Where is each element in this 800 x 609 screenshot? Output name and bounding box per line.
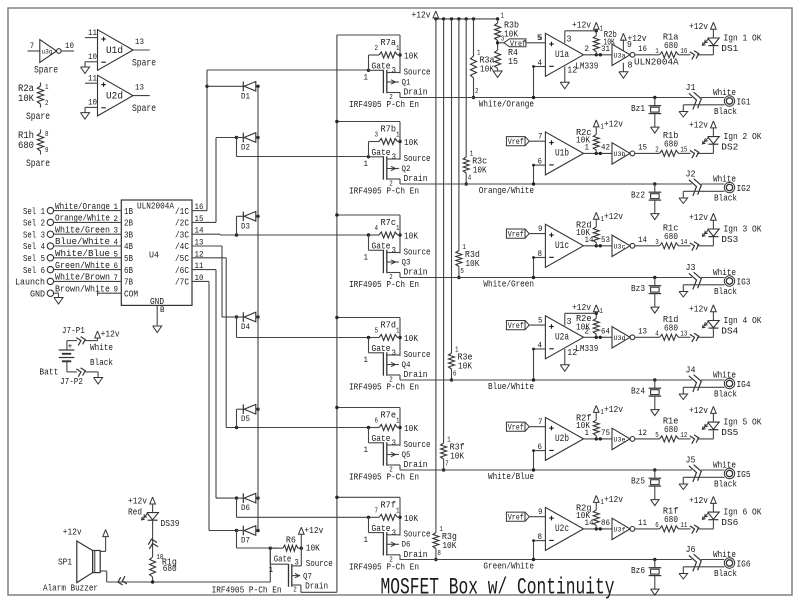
- svg-text:2B: 2B: [124, 219, 133, 229]
- svg-text:D2: D2: [241, 144, 250, 153]
- svg-text:+12v: +12v: [304, 525, 323, 536]
- svg-text:3: 3: [294, 559, 299, 568]
- svg-text:IRF4905 P-Ch En: IRF4905 P-Ch En: [349, 279, 419, 290]
- svg-text:Bz2: Bz2: [631, 190, 645, 201]
- svg-text:D5: D5: [241, 415, 250, 424]
- svg-text:8: 8: [538, 250, 543, 259]
- svg-text:680: 680: [664, 424, 678, 435]
- svg-text:Drain: Drain: [404, 369, 428, 380]
- svg-text:4B: 4B: [124, 242, 133, 252]
- svg-text:Black: Black: [90, 357, 113, 368]
- svg-text:+12v: +12v: [689, 119, 708, 130]
- svg-text:Alarm Buzzer: Alarm Buzzer: [43, 583, 98, 594]
- svg-text:10K: 10K: [576, 134, 590, 145]
- svg-text:1B: 1B: [124, 207, 133, 217]
- svg-text:5B: 5B: [124, 254, 133, 264]
- svg-text:Drain: Drain: [305, 581, 328, 592]
- svg-text:2: 2: [585, 45, 590, 54]
- svg-text:IG3: IG3: [737, 277, 751, 288]
- svg-text:2: 2: [475, 88, 479, 96]
- svg-text:LM339: LM339: [575, 343, 598, 354]
- svg-text:u3g: u3g: [42, 49, 53, 56]
- svg-text:Bz4: Bz4: [631, 386, 645, 397]
- svg-text:Source: Source: [404, 529, 431, 540]
- svg-text:1: 1: [601, 123, 605, 131]
- svg-text:COM: COM: [124, 289, 138, 299]
- svg-text:8: 8: [45, 131, 49, 139]
- svg-text:Black: Black: [714, 389, 737, 400]
- svg-text:/1C: /1C: [175, 207, 190, 217]
- svg-text:4: 4: [375, 225, 379, 233]
- svg-text:Vref: Vref: [508, 138, 524, 147]
- svg-text:5: 5: [375, 328, 379, 336]
- svg-text:7: 7: [538, 133, 543, 142]
- svg-text:DS4: DS4: [721, 325, 738, 336]
- svg-text:15: 15: [508, 56, 518, 67]
- svg-text:Drain: Drain: [404, 459, 428, 470]
- svg-text:Drain: Drain: [404, 267, 428, 278]
- svg-text:4: 4: [538, 341, 543, 350]
- svg-text:DS2: DS2: [721, 141, 738, 152]
- svg-text:IG1: IG1: [737, 97, 751, 108]
- svg-text:IG4: IG4: [737, 379, 751, 390]
- svg-text:10K: 10K: [576, 227, 590, 238]
- svg-text:1: 1: [601, 409, 605, 417]
- svg-text:2: 2: [45, 100, 49, 108]
- svg-text:10K: 10K: [473, 165, 487, 176]
- svg-text:1: 1: [45, 84, 49, 92]
- svg-text:2: 2: [293, 587, 297, 595]
- svg-text:J2: J2: [686, 169, 696, 180]
- svg-text:10K: 10K: [576, 322, 590, 333]
- svg-text:3: 3: [567, 34, 572, 44]
- svg-text:U3d: U3d: [614, 335, 626, 342]
- svg-text:U2a: U2a: [555, 332, 569, 343]
- svg-text:Bz5: Bz5: [631, 476, 645, 487]
- svg-text:1: 1: [364, 254, 369, 263]
- svg-text:1: 1: [600, 25, 604, 33]
- svg-text:1: 1: [364, 536, 369, 545]
- svg-text:1: 1: [396, 225, 400, 233]
- svg-text:R7d: R7d: [381, 320, 397, 331]
- svg-text:2: 2: [655, 146, 659, 154]
- svg-text:Source: Source: [404, 153, 431, 164]
- svg-text:D7: D7: [241, 537, 250, 546]
- svg-text:10K: 10K: [458, 361, 472, 372]
- svg-text:8: 8: [538, 533, 543, 542]
- svg-text:IRF4905 P-Ch En: IRF4905 P-Ch En: [349, 186, 419, 197]
- svg-text:+12v: +12v: [63, 527, 82, 538]
- svg-text:J5: J5: [686, 455, 696, 466]
- svg-text:6: 6: [538, 443, 543, 452]
- svg-text:Sel 5: Sel 5: [23, 253, 45, 264]
- svg-text:42: 42: [601, 144, 610, 153]
- svg-text:10K: 10K: [306, 543, 320, 554]
- svg-text:/3C: /3C: [175, 230, 190, 240]
- svg-text:10K: 10K: [504, 29, 518, 40]
- svg-text:U1d: U1d: [106, 45, 123, 57]
- svg-text:11: 11: [88, 29, 97, 38]
- svg-text:8: 8: [437, 550, 441, 558]
- svg-text:3: 3: [392, 153, 397, 162]
- svg-text:6: 6: [538, 157, 543, 166]
- svg-text:Sel 1: Sel 1: [23, 206, 45, 217]
- svg-text:IG2: IG2: [737, 183, 751, 194]
- svg-text:Spare: Spare: [132, 104, 156, 115]
- svg-text:B: B: [160, 306, 165, 315]
- svg-text:White: White: [713, 173, 736, 184]
- svg-text:13: 13: [135, 38, 144, 47]
- svg-text:White: White: [713, 267, 736, 278]
- svg-text:Sel 4: Sel 4: [23, 241, 45, 252]
- svg-text:White: White: [713, 369, 736, 380]
- svg-text:2: 2: [375, 45, 379, 53]
- svg-text:+12v: +12v: [101, 329, 120, 340]
- svg-text:11: 11: [88, 75, 97, 84]
- svg-text:4: 4: [468, 175, 472, 183]
- svg-text:680: 680: [163, 563, 177, 574]
- svg-text:MOSFET Box w/ Continuity: MOSFET Box w/ Continuity: [381, 575, 615, 601]
- svg-text:IG6: IG6: [737, 559, 751, 570]
- svg-text:3B: 3B: [124, 230, 133, 240]
- svg-text:Sel 2: Sel 2: [23, 218, 45, 229]
- svg-text:IG5: IG5: [737, 469, 751, 480]
- svg-text:3: 3: [567, 317, 572, 327]
- svg-text:J6: J6: [686, 544, 696, 555]
- svg-text:1: 1: [269, 566, 274, 575]
- svg-text:DS3: DS3: [721, 234, 738, 245]
- svg-text:12: 12: [638, 429, 647, 438]
- svg-text:14: 14: [638, 236, 647, 245]
- svg-text:Gate: Gate: [372, 61, 391, 72]
- svg-text:IRF4905 P-Ch En: IRF4905 P-Ch En: [349, 99, 419, 110]
- svg-text:5: 5: [538, 34, 543, 43]
- svg-text:White/Blue: White/Blue: [488, 471, 534, 482]
- svg-text:1: 1: [655, 48, 659, 56]
- svg-text:+12v: +12v: [689, 21, 708, 32]
- svg-text:3: 3: [392, 67, 397, 76]
- svg-text:+12v: +12v: [572, 19, 591, 30]
- svg-text:+12v: +12v: [689, 405, 708, 416]
- svg-text:Gate: Gate: [372, 523, 391, 534]
- svg-text:U2c: U2c: [555, 524, 569, 535]
- svg-text:10K: 10K: [404, 423, 418, 434]
- svg-text:Source: Source: [404, 349, 431, 360]
- svg-text:3: 3: [392, 247, 397, 256]
- svg-text:IRF4905 P-Ch En: IRF4905 P-Ch En: [349, 382, 419, 393]
- svg-text:Orange/White: Orange/White: [479, 185, 534, 196]
- svg-text:+12v: +12v: [604, 118, 623, 129]
- svg-text:GND: GND: [30, 288, 45, 299]
- svg-text:7: 7: [538, 418, 543, 427]
- svg-text:680: 680: [664, 231, 678, 242]
- svg-text:+12v: +12v: [572, 302, 591, 313]
- svg-text:680: 680: [18, 141, 34, 152]
- svg-text:Drain: Drain: [404, 173, 428, 184]
- svg-text:680: 680: [664, 323, 678, 334]
- svg-text:8: 8: [628, 60, 633, 70]
- svg-text:+12v: +12v: [604, 494, 623, 505]
- svg-text:Launch: Launch: [15, 277, 45, 288]
- svg-text:D4: D4: [241, 323, 250, 332]
- svg-text:1: 1: [601, 499, 605, 507]
- svg-text:U4: U4: [149, 250, 159, 261]
- svg-text:U1b: U1b: [555, 147, 569, 159]
- svg-text:Source: Source: [404, 246, 431, 257]
- svg-text:Green/White: Green/White: [483, 561, 534, 572]
- svg-text:10K: 10K: [576, 510, 590, 521]
- svg-text:+12v: +12v: [412, 10, 431, 21]
- svg-text:White: White: [713, 549, 736, 560]
- svg-text:R7f: R7f: [381, 499, 397, 510]
- svg-text:680: 680: [664, 514, 678, 525]
- svg-text:3: 3: [392, 349, 397, 358]
- svg-text:6: 6: [453, 371, 457, 379]
- svg-text:U3e: U3e: [614, 436, 626, 443]
- svg-text:J1: J1: [686, 82, 696, 93]
- svg-text:+12v: +12v: [689, 495, 708, 506]
- svg-text:Vref: Vref: [508, 231, 524, 240]
- svg-text:3: 3: [392, 439, 397, 448]
- svg-text:7: 7: [445, 461, 449, 469]
- svg-text:Vref: Vref: [508, 424, 524, 433]
- svg-text:1: 1: [601, 216, 605, 224]
- svg-text:Batt: Batt: [39, 367, 58, 378]
- svg-text:J4: J4: [686, 365, 696, 376]
- svg-text:1: 1: [396, 508, 400, 516]
- svg-text:680: 680: [664, 139, 678, 150]
- svg-text:10K: 10K: [576, 420, 590, 431]
- svg-text:Sel 3: Sel 3: [23, 229, 45, 240]
- svg-text:DS39: DS39: [161, 518, 180, 529]
- svg-text:J3: J3: [686, 262, 696, 273]
- svg-text:10: 10: [65, 42, 74, 51]
- svg-text:+12v: +12v: [604, 211, 623, 222]
- svg-text:9: 9: [538, 508, 543, 517]
- svg-text:10K: 10K: [404, 51, 418, 62]
- svg-text:R7e: R7e: [381, 410, 397, 421]
- svg-text:1: 1: [364, 160, 369, 169]
- svg-text:/2C: /2C: [175, 219, 190, 229]
- svg-text:White/Orange: White/Orange: [479, 99, 534, 110]
- svg-text:+12v: +12v: [689, 303, 708, 314]
- svg-text:U1c: U1c: [555, 241, 569, 252]
- svg-text:U3f: U3f: [614, 526, 626, 533]
- svg-text:Vref: Vref: [508, 322, 524, 331]
- svg-text:10K: 10K: [480, 64, 494, 75]
- svg-text:DS5: DS5: [721, 427, 738, 438]
- svg-text:U3a: U3a: [614, 52, 626, 59]
- svg-text:White: White: [90, 342, 113, 353]
- svg-text:Black: Black: [714, 479, 737, 490]
- svg-text:3: 3: [375, 132, 379, 140]
- svg-text:9: 9: [627, 40, 632, 50]
- svg-text:Bz3: Bz3: [631, 283, 645, 294]
- svg-text:1: 1: [364, 74, 369, 83]
- svg-text:Spare: Spare: [26, 112, 50, 123]
- svg-text:Black: Black: [714, 193, 737, 204]
- svg-text:75: 75: [601, 429, 610, 438]
- svg-text:ULN2004A: ULN2004A: [137, 201, 174, 212]
- svg-text:Source: Source: [404, 66, 431, 77]
- svg-text:1: 1: [600, 308, 604, 316]
- svg-text:7: 7: [375, 508, 379, 516]
- svg-text:U2b: U2b: [555, 433, 569, 445]
- svg-text:Sel 6: Sel 6: [23, 265, 45, 276]
- svg-text:7B: 7B: [124, 278, 133, 288]
- svg-text:Gate: Gate: [372, 241, 391, 252]
- svg-text:+12v: +12v: [604, 404, 623, 415]
- svg-text:16: 16: [638, 45, 647, 54]
- svg-text:Bz6: Bz6: [631, 565, 645, 576]
- svg-text:/4C: /4C: [175, 242, 190, 252]
- svg-text:6B: 6B: [124, 266, 133, 276]
- svg-text:IRF4905 P-Ch En: IRF4905 P-Ch En: [349, 472, 419, 483]
- svg-text:+: +: [68, 343, 73, 352]
- svg-text:U3b: U3b: [614, 151, 626, 158]
- svg-text:10K: 10K: [603, 36, 615, 47]
- svg-text:Blue/White: Blue/White: [488, 381, 534, 392]
- svg-text:5: 5: [460, 268, 464, 276]
- svg-text:13: 13: [135, 84, 144, 93]
- svg-text:6: 6: [375, 418, 379, 426]
- svg-text:Drain: Drain: [404, 87, 428, 98]
- svg-text:5: 5: [538, 317, 543, 326]
- svg-text:R6: R6: [286, 534, 296, 545]
- svg-text:11: 11: [638, 519, 647, 528]
- svg-text:Gate: Gate: [372, 433, 391, 444]
- svg-text:12: 12: [567, 348, 577, 358]
- svg-text:Gate: Gate: [372, 147, 391, 158]
- svg-text:White: White: [713, 87, 736, 98]
- svg-text:IRF4905 P-Ch En: IRF4905 P-Ch En: [349, 561, 419, 572]
- svg-text:+12v: +12v: [128, 496, 147, 507]
- svg-text:Black: Black: [714, 286, 737, 297]
- svg-text:LM339: LM339: [575, 60, 598, 71]
- svg-text:White/Green: White/Green: [483, 279, 534, 290]
- svg-text:5: 5: [655, 432, 659, 440]
- svg-text:Spare: Spare: [132, 59, 156, 70]
- svg-text:1: 1: [364, 356, 369, 365]
- svg-text:IRF4905 P-Ch En: IRF4905 P-Ch En: [212, 584, 282, 595]
- svg-text:U3c: U3c: [614, 243, 626, 250]
- svg-text:9: 9: [45, 147, 49, 155]
- svg-text:D3: D3: [241, 222, 250, 231]
- svg-text:12: 12: [567, 65, 577, 75]
- svg-text:53: 53: [601, 236, 610, 245]
- svg-text:13: 13: [638, 328, 647, 337]
- svg-text:R7c: R7c: [381, 217, 397, 228]
- svg-text:D1: D1: [241, 92, 250, 101]
- svg-text:4: 4: [538, 59, 543, 68]
- svg-text:Gate: Gate: [372, 343, 391, 354]
- svg-text:1: 1: [396, 132, 400, 140]
- svg-text:Black: Black: [714, 106, 737, 117]
- svg-text:10K: 10K: [404, 513, 418, 524]
- svg-text:10K: 10K: [404, 137, 418, 148]
- svg-text:R7a: R7a: [381, 37, 397, 48]
- svg-text:Drain: Drain: [404, 549, 428, 560]
- svg-text:10K: 10K: [404, 231, 418, 242]
- svg-text:Spare: Spare: [34, 66, 58, 77]
- svg-text:J7-P2: J7-P2: [60, 376, 83, 387]
- svg-text:DS1: DS1: [721, 43, 738, 54]
- svg-text:64: 64: [601, 328, 610, 337]
- svg-text:ULN2004A: ULN2004A: [634, 56, 679, 67]
- svg-text:D6: D6: [241, 504, 250, 513]
- svg-text:Bz1: Bz1: [631, 103, 645, 114]
- svg-text:Red: Red: [128, 507, 142, 518]
- svg-text:/5C: /5C: [175, 254, 190, 264]
- svg-text:SP1: SP1: [58, 557, 72, 568]
- svg-text:10K: 10K: [450, 451, 464, 462]
- svg-text:Source: Source: [404, 439, 431, 450]
- svg-text:White: White: [713, 459, 736, 470]
- svg-text:U1a: U1a: [555, 50, 569, 61]
- svg-text:Black: Black: [714, 568, 737, 579]
- svg-text:10K: 10K: [465, 258, 479, 269]
- svg-text:+12v: +12v: [689, 212, 708, 223]
- svg-text:J7-P1: J7-P1: [62, 325, 85, 336]
- svg-text:10: 10: [88, 99, 97, 108]
- svg-text:7: 7: [30, 42, 34, 51]
- svg-text:10: 10: [88, 53, 97, 62]
- svg-text:10K: 10K: [442, 540, 456, 551]
- svg-text:Gate: Gate: [274, 554, 292, 565]
- svg-text:4: 4: [655, 330, 659, 338]
- svg-text:DS6: DS6: [721, 517, 738, 528]
- svg-text:9: 9: [538, 225, 543, 234]
- svg-text:1: 1: [396, 418, 400, 426]
- svg-text:Source: Source: [306, 558, 333, 569]
- svg-text:10K: 10K: [18, 94, 34, 105]
- svg-text:3: 3: [392, 529, 397, 538]
- svg-text:1: 1: [396, 45, 400, 53]
- svg-text:Vref: Vref: [508, 514, 524, 523]
- svg-text:680: 680: [664, 40, 678, 51]
- svg-text:3: 3: [655, 239, 659, 247]
- svg-text:86: 86: [601, 519, 610, 528]
- svg-text:1: 1: [396, 328, 400, 336]
- svg-text:6: 6: [655, 522, 659, 530]
- svg-text:/7C: /7C: [175, 278, 190, 288]
- svg-text:10K: 10K: [404, 333, 418, 344]
- svg-text:/6C: /6C: [175, 266, 190, 276]
- svg-text:Spare: Spare: [26, 159, 50, 170]
- svg-text:R7b: R7b: [381, 124, 397, 135]
- svg-text:U2d: U2d: [106, 91, 123, 103]
- svg-text:1: 1: [364, 446, 369, 455]
- svg-text:15: 15: [638, 144, 647, 153]
